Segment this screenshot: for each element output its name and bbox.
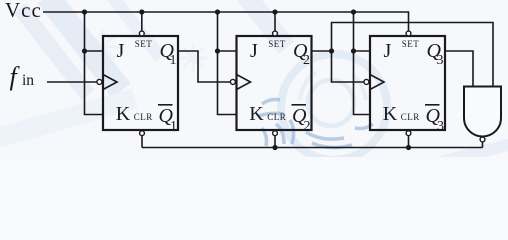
SET bubble U3: [406, 31, 411, 36]
SET bubble U1: [139, 31, 144, 36]
junction bottom rail / CLR3: [406, 145, 411, 150]
junction top rail / U2 SET stub: [272, 9, 277, 14]
wire CLR3 to bottom rail: [408, 130, 410, 131]
wire Q2 node: [312, 50, 332, 52]
svg-text:K: K: [116, 103, 131, 125]
wire JK tie FF3: [354, 12, 371, 115]
svg-text:SET: SET: [135, 39, 153, 49]
wire fin input: [47, 81, 97, 83]
wire JK tie FF2: [218, 12, 237, 115]
label Q2 bar: [292, 104, 307, 106]
wire JK tie FF1: [85, 12, 104, 115]
label Q1 bar: [158, 104, 173, 106]
flip-flop U3 box: [370, 36, 445, 130]
svg-text:2: 2: [304, 119, 311, 134]
clock bubble U3: [364, 79, 369, 84]
CLR bubble U1: [140, 131, 145, 136]
wire Q2 to NAND input: [332, 23, 494, 87]
svg-text:CLR: CLR: [134, 112, 153, 122]
junction top rail / U1 SET stub: [139, 9, 144, 14]
wire CLR1 to bottom rail: [141, 130, 143, 131]
flip-flop U1 box: [103, 36, 178, 130]
svg-text:SET: SET: [268, 39, 286, 49]
junction top rail / U1 JK tie: [82, 9, 87, 14]
NAND gate G1 body: [464, 87, 501, 137]
wire CLR2 to bottom rail: [274, 130, 276, 131]
wire Q3 to NAND input: [445, 51, 473, 87]
CLR bubble U3: [406, 131, 411, 136]
SET bubble U2: [273, 31, 278, 36]
junction node J2: [215, 48, 220, 53]
flip-flop U2 box: [237, 36, 312, 130]
clock triangle U3: [370, 75, 384, 90]
junction top rail / U3 JK tie: [351, 9, 356, 14]
svg-text:1: 1: [170, 53, 177, 68]
wire J3 branch: [354, 50, 371, 52]
wire Q1 to clock2: [178, 51, 230, 82]
clock triangle U1: [103, 75, 117, 90]
svg-text:J: J: [117, 40, 125, 62]
junction top rail / U2 JK tie: [215, 9, 220, 14]
wire J2 branch: [218, 50, 237, 52]
svg-text:3: 3: [437, 53, 444, 68]
junction node J1: [82, 48, 87, 53]
svg-text:CLR: CLR: [401, 112, 420, 122]
junction node Q2 branch: [329, 48, 334, 53]
wire NAND output stub: [482, 142, 484, 148]
svg-text:K: K: [249, 103, 264, 125]
clock bubble U1: [97, 79, 102, 84]
svg-text:3: 3: [437, 119, 444, 134]
svg-text:K: K: [383, 103, 398, 125]
wire Q2 to clock3: [332, 51, 364, 82]
wire bottom rail (NAND output to CLR pins): [142, 147, 483, 149]
svg-text:2: 2: [303, 53, 310, 68]
svg-text:in: in: [22, 72, 34, 89]
junction node J3: [351, 48, 356, 53]
svg-text:J: J: [250, 40, 258, 62]
NAND output bubble: [480, 137, 485, 142]
wire SET2 stub: [274, 12, 276, 31]
label Q3 bar: [425, 104, 440, 106]
svg-text:Vcc: Vcc: [5, 0, 42, 22]
svg-text:CLR: CLR: [267, 112, 286, 122]
Vcc top rail: [43, 12, 409, 31]
svg-text:J: J: [384, 40, 392, 62]
clock bubble U2: [230, 79, 235, 84]
wire SET1 stub: [141, 12, 143, 31]
junction bottom rail / CLR2: [272, 145, 277, 150]
CLR bubble U2: [273, 131, 278, 136]
svg-text:SET: SET: [402, 39, 420, 49]
svg-text:1: 1: [170, 119, 177, 134]
clock triangle U2: [237, 75, 251, 90]
wire J1 branch: [85, 50, 104, 52]
